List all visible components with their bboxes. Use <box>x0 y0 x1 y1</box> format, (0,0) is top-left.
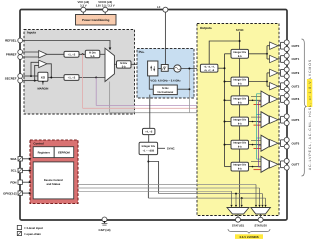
svg-text:Inputs: Inputs <box>27 31 37 35</box>
svg-text:N Div: N Div <box>162 87 169 90</box>
svg-text:5-b: 5-b <box>91 55 95 58</box>
svg-text:= 3-level input: = 3-level input <box>24 226 43 230</box>
svg-text:3.3 V: 3.3 V <box>80 4 87 8</box>
svg-text:STATUS0: STATUS0 <box>254 223 267 227</box>
svg-text:OUT6: OUT6 <box>292 141 300 145</box>
svg-text:ΣΔ fractional: ΣΔ fractional <box>157 91 173 94</box>
svg-text:8-b: 8-b <box>238 123 242 126</box>
svg-text:÷2, ÷3, ÷4,: ÷2, ÷3, ÷4, <box>204 66 215 69</box>
svg-text:Integer Div: Integer Div <box>233 164 247 167</box>
svg-text:8-b: 8-b <box>238 55 242 58</box>
svg-text:Registers: Registers <box>38 151 51 154</box>
svg-text:SECREF: SECREF <box>5 76 17 80</box>
svg-text:8-b: 8-b <box>238 168 242 171</box>
svg-text:SCL: SCL <box>11 169 17 173</box>
svg-text:8-b: 8-b <box>238 146 242 149</box>
svg-text:OUT2: OUT2 <box>292 71 300 75</box>
svg-text:Integer Div: Integer Div <box>142 145 156 148</box>
svg-text:EEPROM: EEPROM <box>58 151 70 154</box>
svg-text:SDA: SDA <box>10 157 17 161</box>
svg-text:CAP (x3): CAP (x3) <box>99 228 111 232</box>
svg-text:OUT1: OUT1 <box>292 57 300 61</box>
svg-text:Integer Div: Integer Div <box>233 97 247 100</box>
svg-text:= open-drain: = open-drain <box>24 232 41 236</box>
svg-text:3.3-V LVCMOS: 3.3-V LVCMOS <box>239 235 258 239</box>
svg-text:MARGIN: MARGIN <box>37 88 48 91</box>
svg-text:OUT4: OUT4 <box>292 97 300 101</box>
svg-text:Integer Div: Integer Div <box>233 142 247 145</box>
svg-text:8-b: 8-b <box>238 83 242 86</box>
svg-text:Control: Control <box>33 141 43 145</box>
svg-text:SYNC: SYNC <box>236 28 244 32</box>
svg-text:STATUS1: STATUS1 <box>232 223 245 227</box>
svg-text:SYNC: SYNC <box>167 147 175 151</box>
svg-text:LF: LF <box>157 5 161 9</box>
svg-text:8-b: 8-b <box>238 101 242 104</box>
svg-text:PLL: PLL <box>139 50 145 54</box>
svg-text:÷5, ÷7, ÷8: ÷5, ÷7, ÷8 <box>204 69 215 72</box>
svg-text:÷4, ÷5: ÷4, ÷5 <box>145 131 153 134</box>
svg-text:OUT5: OUT5 <box>292 118 300 122</box>
svg-text:5-b: 5-b <box>122 65 126 68</box>
svg-text:Integer Div: Integer Div <box>233 119 247 122</box>
svg-text:OUT3: OUT3 <box>292 84 300 88</box>
svg-text:÷1, ÷2: ÷1, ÷2 <box>68 53 76 56</box>
svg-text:Outputs: Outputs <box>200 26 212 30</box>
svg-text:Integer Div: Integer Div <box>233 79 247 82</box>
svg-text:1.8 / 2.5 / 3.3 V: 1.8 / 2.5 / 3.3 V <box>96 4 115 8</box>
svg-text:÷1 – ÷256: ÷1 – ÷256 <box>143 150 155 153</box>
svg-text:PRIREF: PRIREF <box>6 53 17 57</box>
svg-text:Integer Div: Integer Div <box>233 51 247 54</box>
svg-text:AC-LVPECL, AC-CML, HCSL, or 1.: AC-LVPECL, AC-CML, HCSL, or 1.8-V LVCMOS <box>308 59 312 170</box>
svg-text:VCO: 4.8 GHz – 5.4 GHz: VCO: 4.8 GHz – 5.4 GHz <box>150 79 181 82</box>
svg-text:PDN: PDN <box>10 180 16 184</box>
svg-text:Power Conditioning: Power Conditioning <box>82 18 110 22</box>
svg-text:OUT7: OUT7 <box>292 162 300 166</box>
svg-text:and Status: and Status <box>47 183 61 186</box>
svg-text:Device Control: Device Control <box>44 179 63 182</box>
svg-text:÷1, ÷2: ÷1, ÷2 <box>68 77 76 80</box>
svg-text:XO: XO <box>41 75 46 79</box>
svg-text:OUT0: OUT0 <box>292 44 300 48</box>
svg-text:REFSEL: REFSEL <box>5 39 17 43</box>
svg-text:GPIO[3:2]: GPIO[3:2] <box>3 191 16 195</box>
